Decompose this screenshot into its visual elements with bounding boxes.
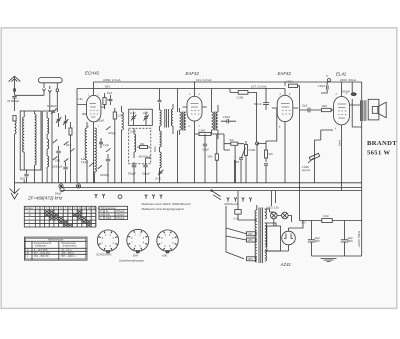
capacitor T1 top (158, 89, 162, 102)
trimmer table (99, 206, 128, 219)
label mains rotated (357, 230, 361, 248)
resistor 2M (215, 134, 218, 183)
svg-text:25µF: 25µF (302, 106, 308, 108)
svg-text:N 40pF: N 40pF (47, 104, 57, 108)
capacitor 5000pF af (239, 158, 243, 183)
svg-text:450V: 450V (348, 241, 354, 243)
pin numbers V1 (88, 95, 100, 129)
label GMW Bereich (224, 203, 239, 206)
switch contacts S1 (53, 139, 75, 162)
wire af lines (224, 144, 257, 183)
frame antenna (38, 78, 62, 88)
antenna A1 (9, 76, 21, 95)
socket AZ41 (157, 230, 178, 253)
label 39k rotated (155, 146, 157, 152)
label 107 0,2mA (251, 85, 266, 89)
svg-text:M: M (101, 215, 103, 217)
switch position table (24, 206, 96, 227)
label -50V (301, 223, 307, 225)
svg-text:Wellenbereiche: Wellenbereiche (48, 238, 65, 241)
svg-text:Schalter: Schalter (25, 207, 34, 210)
filter rail (300, 220, 362, 222)
jack circle mid (118, 195, 122, 199)
svg-text:Sockelschaltungen: Sockelschaltungen (119, 259, 145, 263)
wire B+ rail 220V (94, 81, 362, 83)
trimmer Cb (63, 115, 68, 129)
connector forks antenna (42, 86, 58, 97)
svg-text:EM4: EM4 (133, 256, 138, 258)
svg-text:2mA: 2mA (337, 140, 341, 146)
svg-text:517µµF: 517µµF (117, 218, 125, 220)
svg-text:6 – 18,6 MHz: 6 – 18,6 MHz (34, 250, 49, 252)
label AMW 2,3mA (103, 78, 121, 82)
trimmer 11-47 b (144, 112, 149, 126)
svg-text:0,05µF: 0,05µF (223, 117, 231, 119)
pin numbers V4 (335, 94, 348, 131)
svg-text:Schwingkreise: Schwingkreise (101, 207, 117, 210)
svg-text:EL41: EL41 (336, 72, 347, 77)
svg-text:82V: 82V (105, 85, 110, 89)
svg-text:GMW Bereich: GMW Bereich (224, 203, 239, 206)
jack TA circle (60, 187, 64, 191)
node dots rails (194, 81, 328, 89)
electrolytic 16uF (341, 221, 348, 257)
mains transformer core (259, 208, 263, 264)
IF transformer T1 (160, 103, 174, 183)
capacitor 0,1uF cath (99, 138, 103, 148)
coil L2 (35, 111, 37, 170)
IF transformer T3 (212, 89, 219, 140)
trimmer Ca (56, 113, 61, 127)
resistor 1,6k (322, 218, 332, 222)
svg-text:39kΩ: 39kΩ (155, 146, 157, 152)
wire main bus (15, 182, 362, 184)
svg-text:125V: 125V (248, 240, 254, 242)
trimmer N 40pF (51, 109, 57, 114)
electrolytic 32uF (308, 221, 315, 257)
svg-text:1,8A: 1,8A (78, 98, 83, 101)
label ZF note (27, 196, 63, 201)
trimmer T1 bottom (158, 170, 163, 175)
IF transformer T2 primary (180, 108, 187, 135)
coil box assembly (20, 111, 41, 170)
resistor 0,3M detector (195, 132, 217, 135)
coil L3 segments (47, 112, 49, 176)
volume potentiometer 0,5M (242, 141, 248, 160)
capacitor tone 5k (264, 141, 268, 183)
svg-text:5000pF: 5000pF (342, 92, 350, 94)
wire AZ41 output (265, 221, 303, 229)
capacitor 500pF det (203, 134, 207, 183)
svg-text:150 – 350 kHz: 150 – 350 kHz (34, 256, 50, 258)
capacitor 0,05uF (221, 119, 236, 123)
junction circle TA (256, 142, 259, 145)
svg-text:15000µµF: 15000µµF (52, 166, 63, 168)
svg-text:11-47: 11-47 (143, 113, 149, 115)
bandfilter dashed box (129, 128, 151, 163)
wave band table text (27, 238, 77, 257)
dial lamps 2xE10 (271, 212, 289, 219)
connector jack left (59, 184, 63, 188)
svg-text:2000: 2000 (106, 218, 112, 220)
svg-text:32µF: 32µF (315, 238, 321, 240)
svg-text:~220V, 50Hz: ~220V, 50Hz (357, 230, 361, 248)
note measurement 2 (142, 207, 184, 211)
resistor 90 in box (137, 146, 150, 149)
wire screen rail 82V (77, 88, 285, 90)
wire right edge riser x362 (361, 82, 363, 256)
wire grid feed V3 (257, 108, 277, 144)
svg-text:15-40: 15-40 (130, 132, 137, 134)
wire af riser x299.5 (299, 89, 301, 221)
svg-text:0,1µF: 0,1µF (103, 145, 110, 147)
speaker (368, 99, 386, 120)
mains switch on bus (211, 190, 221, 200)
tube EAF42 V2 (183, 82, 207, 183)
capacitor 5000 bottom (24, 170, 28, 180)
terminal forks left group (95, 194, 105, 198)
coil osc feedback (122, 106, 124, 136)
transformer primary winding (248, 205, 257, 262)
svg-text:5,3µµF: 5,3µµF (81, 162, 89, 164)
svg-text:11-47: 11-47 (130, 113, 136, 115)
label 220V 36mA (340, 78, 356, 82)
svg-text:EAF42: EAF42 (278, 71, 292, 76)
svg-text:450V: 450V (315, 241, 321, 243)
capacitor M 500pF (12, 96, 16, 98)
svg-text:16µF: 16µF (348, 238, 354, 240)
transformer secondary HT winding (265, 223, 267, 247)
label Sockelschaltungen (119, 259, 145, 263)
wire speaker frame (350, 99, 362, 127)
ground chassis (10, 183, 20, 199)
capacitor padder b (143, 158, 147, 171)
resistor 0,1M (230, 89, 257, 143)
svg-text:25pF: 25pF (66, 145, 72, 147)
wire mid group risers (108, 124, 122, 183)
label 1,8 A (78, 98, 83, 101)
label 82V (105, 85, 110, 89)
capacitor 0,05uF screen (321, 82, 328, 93)
svg-text:empfangen: empfangen (35, 246, 47, 248)
label 4-20 (81, 159, 89, 164)
svg-text:2MΩ: 2MΩ (208, 157, 213, 159)
label 15-40 (130, 132, 137, 134)
wire heater drops (271, 191, 275, 206)
svg-text:0,3MΩ: 0,3MΩ (286, 82, 293, 84)
svg-text:geg.kop: geg.kop (302, 170, 311, 172)
svg-text:0,5MΩ: 0,5MΩ (249, 150, 256, 152)
title BRANDT 5651 W (367, 140, 397, 157)
svg-text:M: M (27, 253, 29, 255)
coil L3 (85, 122, 87, 183)
wire gang risers (42, 111, 52, 183)
output transformer windings (361, 100, 366, 121)
svg-text:0,3MΩ: 0,3MΩ (199, 131, 206, 133)
svg-text:BRANDT: BRANDT (367, 140, 397, 147)
ground bars PSU (321, 258, 337, 261)
capacitor 50mF (263, 89, 269, 111)
tube ECH42 V1 (77, 82, 105, 183)
wave band table (24, 237, 87, 260)
svg-text:185 – 580 m: 185 – 580 m (61, 253, 74, 255)
svg-text:220V: 220V (248, 259, 254, 261)
pin numbers V2 (189, 94, 201, 128)
coil antenna series (15, 121, 17, 134)
socket EM4 (127, 229, 149, 253)
wire filter ground (312, 255, 362, 257)
svg-text:entsprechend: entsprechend (62, 245, 77, 248)
svg-text:857 – 2000 m: 857 – 2000 m (61, 256, 75, 258)
wire antenna node line (15, 94, 45, 96)
svg-text:M 500pF: M 500pF (8, 99, 20, 103)
label 0,05uF v1 (97, 121, 105, 123)
svg-text:530µµF: 530µµF (142, 174, 150, 176)
svg-text:0,1MΩ: 0,1MΩ (302, 167, 309, 169)
transformer secondary heater winding (265, 209, 267, 219)
svg-text:M: M (29, 215, 31, 217)
svg-text:1,6kΩ: 1,6kΩ (323, 216, 329, 218)
svg-text:–50V: –50V (301, 223, 307, 225)
label 100uuF (108, 133, 116, 135)
switch table header text (25, 207, 101, 227)
wire antenna down lead (14, 98, 16, 183)
wire lamp feeds (265, 209, 271, 216)
label 25 kO (66, 145, 72, 147)
wire det node (216, 134, 224, 150)
resistor 0,3M V3 top (285, 82, 300, 89)
svg-text:5000: 5000 (20, 179, 26, 181)
trimmer 11-47 a (131, 112, 136, 126)
svg-text:100µµF: 100µµF (108, 133, 116, 135)
resistor 50k anode V1 (103, 93, 106, 109)
coil L4 (95, 128, 97, 183)
capacitor 300pF (106, 154, 110, 168)
svg-text:AZ41: AZ41 (280, 262, 292, 267)
terminal circle top (328, 79, 331, 82)
wire heater bus b (61, 190, 362, 192)
wire mid riser x177.5 (177, 89, 179, 183)
svg-text:50pF: 50pF (107, 93, 113, 95)
trimmer box solid (129, 109, 153, 125)
capacitor 25uF coupling (300, 108, 322, 113)
svg-text:0,1MΩ: 0,1MΩ (237, 98, 244, 100)
svg-text:1500: 1500 (55, 161, 61, 163)
resistor left vbox (69, 122, 72, 141)
pin numbers V3 (279, 94, 291, 129)
svg-text:10-40: 10-40 (155, 179, 162, 181)
wire bandfilter risers (134, 158, 151, 183)
coil L1 (23, 111, 25, 170)
svg-text:107, 0,2mA: 107, 0,2mA (251, 85, 266, 89)
label 101 0,2mA (196, 78, 211, 82)
svg-text:0,1A: 0,1A (234, 217, 239, 220)
heater return box (267, 219, 281, 251)
svg-text:90Ω: 90Ω (140, 144, 145, 146)
svg-text:16 – 51 m: 16 – 51 m (61, 250, 71, 252)
socket ECH42 EAF42 (97, 230, 118, 253)
wire frame leads (50, 92, 58, 112)
svg-text:517µµF: 517µµF (117, 215, 125, 217)
capacitor 5000pF anode (351, 82, 356, 96)
svg-text:50mF: 50mF (254, 102, 262, 106)
svg-text:10kΩ: 10kΩ (322, 106, 328, 108)
note measurement 1 (142, 202, 191, 206)
voltage selector line (226, 206, 244, 259)
capacitor 50pF (109, 95, 113, 105)
transformer secondary rect winding (265, 250, 267, 261)
rectifier AZ41 (265, 228, 296, 251)
resistor 10k grid V4 (322, 108, 334, 111)
svg-text:500pF: 500pF (203, 150, 210, 152)
wire heater bus a (61, 187, 362, 189)
svg-text:ZF=468(472) kHz: ZF=468(472) kHz (27, 196, 63, 201)
svg-text:AMW, 2,3mA: AMW, 2,3mA (103, 78, 121, 82)
terminal forks mid group (145, 195, 163, 199)
svg-text:5kΩ: 5kΩ (269, 154, 273, 156)
svg-text:4-20: 4-20 (81, 159, 86, 161)
feedback potentiometer 0,1M (308, 140, 320, 183)
svg-text:101, 0,2mA: 101, 0,2mA (196, 78, 211, 82)
capacitor 1500 (56, 146, 60, 158)
wire shielded pair (235, 146, 236, 183)
capacitor padder a (132, 162, 136, 171)
label 500pF jack (55, 194, 62, 196)
svg-text:0,05µF: 0,05µF (318, 86, 326, 88)
coil L5 padder (134, 128, 136, 158)
switch table X marks (45, 210, 91, 226)
tube EBC V3 (272, 89, 298, 183)
resistor antenna (13, 116, 16, 122)
wire left coils to bus (24, 141, 70, 183)
terminal forks output group (227, 198, 252, 202)
svg-text:5kΩ: 5kΩ (230, 140, 234, 142)
label 465 463 (139, 157, 152, 159)
fuse 0,1A (235, 191, 248, 220)
svg-text:220V, 36mA: 220V, 36mA (340, 78, 356, 82)
svg-text:ECH42: ECH42 (85, 71, 100, 76)
tube EL41 V4 (331, 82, 349, 191)
svg-text:AZ41: AZ41 (162, 255, 168, 258)
label 110V (226, 228, 256, 236)
wire feedback tap (315, 130, 334, 140)
svg-text:5651 W: 5651 W (367, 149, 390, 156)
svg-text:Meßwerte ohne Eingangssignal: Meßwerte ohne Eingangssignal (142, 207, 184, 211)
svg-text:517 – 1622 kHz: 517 – 1622 kHz (34, 253, 51, 255)
svg-text:517µµF: 517µµF (117, 211, 125, 213)
switch contacts S2 (89, 126, 111, 169)
label 220V (247, 257, 257, 261)
wire left riser x77 (76, 89, 78, 183)
capacitor 15000 (63, 162, 67, 174)
resistor 0,2M grid (113, 108, 116, 124)
svg-text:Meßinstrument 10Ω/V, 600Ω Bere: Meßinstrument 10Ω/V, 600Ω Bereich (142, 202, 191, 206)
resistor 5k (224, 142, 244, 145)
svg-text:110V: 110V (248, 234, 254, 236)
connector jack left b (76, 184, 80, 188)
svg-text:EAF42: EAF42 (186, 71, 200, 76)
label 2mA rotated (337, 140, 341, 146)
label 125V (226, 236, 256, 242)
trimmer table text (101, 207, 125, 220)
svg-text:ECH42 EAF42: ECH42 EAF42 (97, 254, 113, 257)
svg-text:0,05µF: 0,05µF (97, 121, 105, 123)
svg-text:500µµF: 500µµF (128, 174, 136, 176)
svg-text:0,2M: 0,2M (118, 116, 123, 118)
